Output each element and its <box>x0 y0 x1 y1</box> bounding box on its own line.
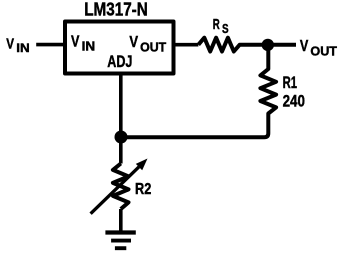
svg-text:LM317-N: LM317-N <box>84 0 148 20</box>
svg-text:240: 240 <box>283 91 305 110</box>
svg-text:V: V <box>6 36 14 53</box>
svg-text:IN: IN <box>82 40 96 54</box>
svg-text:R: R <box>213 17 220 33</box>
svg-text:R1: R1 <box>283 74 297 92</box>
svg-text:S: S <box>222 22 229 36</box>
svg-text:V: V <box>129 34 138 51</box>
svg-text:V: V <box>300 38 309 55</box>
svg-text:IN: IN <box>16 41 29 55</box>
svg-text:ADJ: ADJ <box>107 53 132 71</box>
svg-text:R2: R2 <box>135 181 151 198</box>
svg-text:OUT: OUT <box>140 40 166 54</box>
svg-text:OUT: OUT <box>310 44 337 58</box>
svg-text:V: V <box>71 34 80 51</box>
